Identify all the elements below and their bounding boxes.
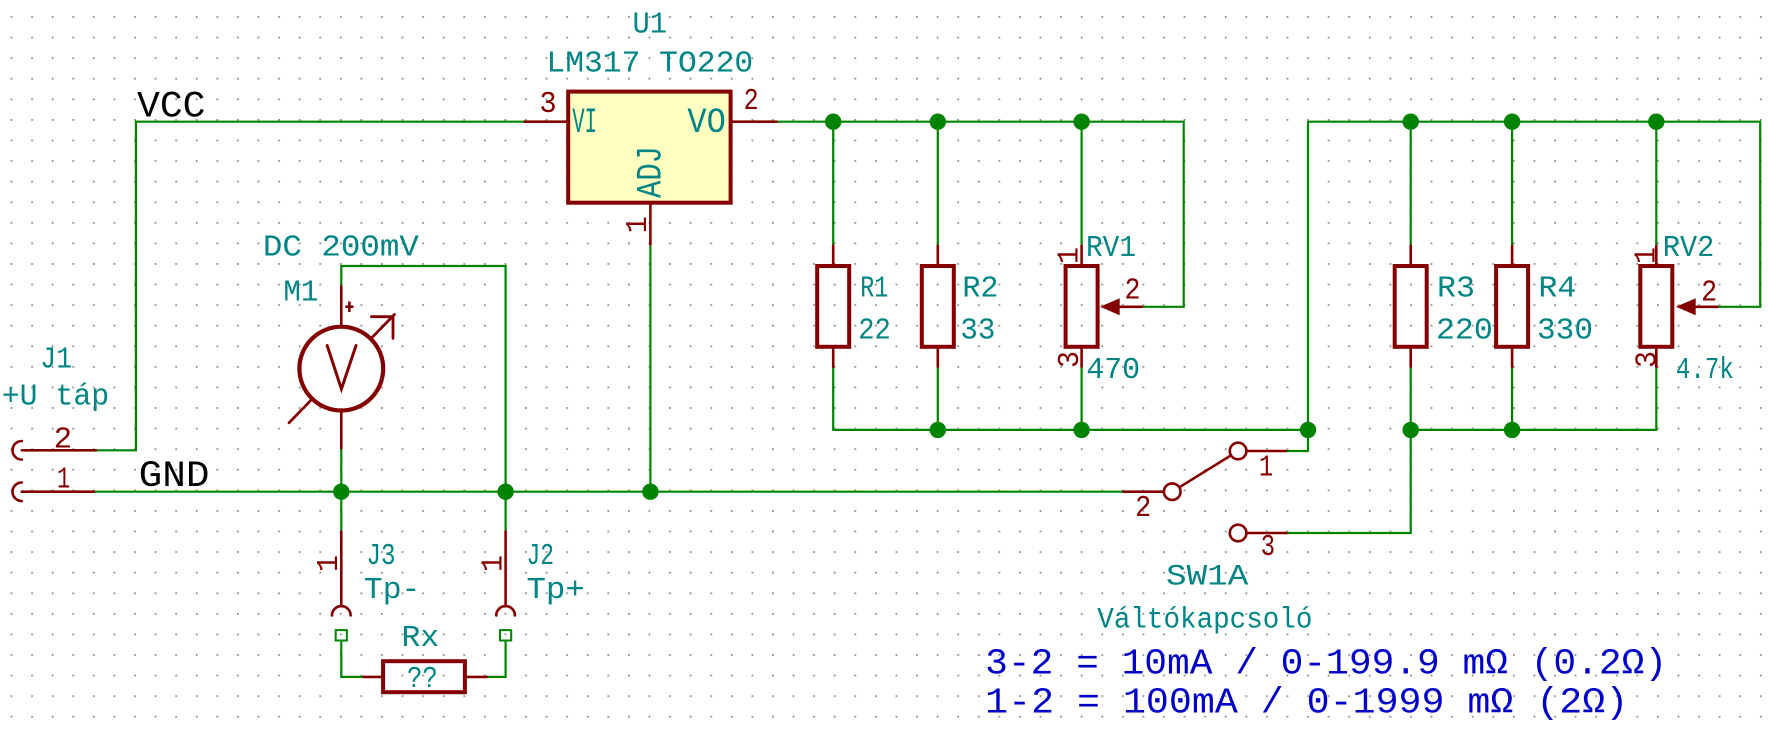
resistor Rx body [383,661,465,692]
potentiometer RV1 body [1066,266,1098,347]
Rx left pin [363,676,381,679]
svg-text:+U táp: +U táp [2,379,109,414]
switch SW1A bar [1179,455,1231,487]
voltmeter M1 body [299,327,383,411]
wire R3 bottom lead [1410,367,1412,430]
R2 top stub [936,246,939,264]
svg-text:22: 22 [858,314,891,349]
potentiometer RV2 body [1640,266,1672,347]
test point connector J2 pin [504,531,507,606]
svg-text:1: 1 [57,463,70,498]
junction Tp+/GND [497,484,513,500]
SW1A pin 3 stub [1246,532,1286,535]
svg-text:R4: R4 [1538,272,1576,307]
RV2 wiper arrow [1676,298,1696,315]
wire R1 bottom lead [832,367,834,430]
wire VO rail [776,121,1183,123]
test point connector J3 pin [340,531,343,606]
junction R2 bottom [930,422,946,438]
SW1A pin 2 stub [1124,490,1164,493]
R3 bottom stub [1409,349,1412,367]
junction RV2 top [1648,114,1664,130]
svg-text:33: 33 [960,314,995,349]
svg-text:4.7k: 4.7k [1676,353,1734,388]
connector J1 pin 1 [22,490,94,493]
junction M1/GND [333,484,349,500]
wire R1 top lead [832,122,834,246]
svg-text:RV2: RV2 [1663,231,1715,266]
svg-text:1: 1 [1630,247,1665,264]
wire right bank bottom rail [1411,429,1657,431]
wire RV1 top lead [1080,122,1082,246]
R1 bottom stub [832,349,835,367]
RV1 pin 1 stub [1080,246,1083,264]
M1 top pin [340,286,343,324]
wire GND to J3 [340,492,342,532]
svg-text:U1: U1 [633,8,668,43]
R4 top stub [1511,246,1514,264]
svg-text:Tp+: Tp+ [527,573,585,608]
svg-text:GND: GND [139,456,210,498]
wire R4 top lead [1511,122,1513,246]
pin 2 VO of U1 [733,120,777,123]
wire right bank top rail [1308,121,1760,123]
svg-text:2: 2 [1701,275,1717,310]
wire RV2 top lead [1655,122,1657,246]
wire ADJ to GND [649,244,651,491]
wire R2 bottom lead [937,367,939,430]
svg-text:R1: R1 [860,272,888,307]
resistor R1 [817,266,849,347]
RV2 pin 1 stub [1655,246,1658,264]
wire top rail corner to RV2 wiper [1718,122,1761,307]
wire GND horizontal [94,491,1124,493]
svg-text:1: 1 [476,555,511,572]
junction riser/rail [1300,422,1316,438]
wire Rx right wire [487,641,506,677]
svg-text:Rx: Rx [402,621,440,656]
svg-text:470: 470 [1086,353,1140,388]
M1 bottom pin [340,412,343,448]
svg-text:??: ?? [407,662,438,697]
svg-text:RV1: RV1 [1086,231,1136,266]
svg-text:M1: M1 [283,275,318,310]
resistor R2 [922,266,954,347]
svg-text:VO: VO [687,103,725,143]
svg-text:VCC: VCC [137,87,206,129]
svg-text:3-2 = 10mA / 0-199.9 mΩ (0.2Ω): 3-2 = 10mA / 0-199.9 mΩ (0.2Ω) [985,643,1667,684]
junction R4 top [1504,114,1520,130]
svg-text:3: 3 [539,87,556,122]
svg-text:ADJ: ADJ [631,146,671,198]
svg-text:3: 3 [1261,530,1275,565]
svg-text:1: 1 [621,216,656,233]
svg-text:3: 3 [1053,351,1088,368]
svg-text:VI: VI [572,103,597,143]
wire riser to right bank top rail [1307,122,1309,430]
switch SW1A pin 2 contact [1164,483,1181,500]
wire VCC horizontal [136,121,525,123]
svg-text:J1: J1 [40,343,72,378]
svg-text:DC 200mV: DC 200mV [263,230,419,265]
wire R3 top lead [1410,122,1412,246]
R2 bottom stub [936,349,939,367]
svg-text:Váltókapcsoló: Váltókapcsoló [1097,604,1312,638]
resistor R3 [1395,266,1427,347]
svg-text:2: 2 [744,84,759,119]
RV2 pin 3 stub [1655,349,1658,367]
svg-text:SW1A: SW1A [1166,561,1248,595]
Rx right pin [467,676,487,679]
svg-text:3: 3 [1630,351,1665,368]
pin 1 ADJ of U1 [649,205,652,245]
pin 3 VI of U1 [525,120,567,123]
R1 top stub [832,246,835,264]
svg-text:330: 330 [1537,314,1593,349]
wire SW1A pin 3 connection [1287,430,1411,533]
wire left bank bottom rail [833,429,1308,431]
wire R2 top lead [937,122,939,246]
wire Rx left wire [341,641,363,677]
svg-text:R2: R2 [962,272,998,307]
R3 top stub [1409,246,1412,264]
junction R4 bottom [1504,422,1520,438]
wire R4 bottom lead [1511,367,1513,430]
M1 V symbol [327,346,356,389]
junction R2 top [930,114,946,130]
wire SW1A pin 1 connection [1286,430,1308,451]
junction ADJ/GND [642,484,658,500]
svg-text:R3: R3 [1437,272,1475,307]
svg-text:Tp-: Tp- [364,573,421,608]
RV1 wiper arrow [1100,298,1120,315]
RV1 pin 3 stub [1080,349,1083,367]
M1 plus sign [345,302,353,313]
M1 adjustment arrow [289,315,394,423]
svg-text:1: 1 [312,555,347,572]
op-amp U1 LM317 body [568,92,730,203]
svg-text:1: 1 [1259,451,1273,486]
wire GND to J2 [505,492,507,532]
wire RV1 bottom lead [1080,367,1082,430]
wire M1 bottom to GND [340,448,342,492]
junction RV1 bottom [1073,422,1089,438]
svg-text:2: 2 [54,422,73,457]
svg-text:2: 2 [1125,274,1141,309]
svg-text:2: 2 [1135,491,1151,526]
wire VCC vertical to J1 pin 2 [96,122,136,451]
junction RV1 top [1073,114,1089,130]
R4 bottom stub [1511,349,1514,367]
svg-text:LM317 TO220: LM317 TO220 [546,47,753,82]
switch SW1A pin 3 contact [1230,525,1247,542]
wire VO rail corner to RV1 wiper [1142,122,1184,307]
resistor R4 [1496,266,1528,347]
svg-text:1: 1 [1052,247,1087,264]
SW1A pin 1 stub [1246,450,1285,453]
junction R1 top [825,114,841,130]
J3 unconnected wire end square [336,630,347,640]
svg-text:J3: J3 [367,539,396,574]
wire M1 top to Tp+ column [341,266,505,492]
svg-text:220: 220 [1436,314,1493,349]
svg-text:1-2 = 100mA / 0-1999 mΩ (2Ω): 1-2 = 100mA / 0-1999 mΩ (2Ω) [985,682,1628,723]
junction R3 top [1403,114,1419,130]
connector J1 pin 2 [22,449,96,452]
junction R3 bottom [1403,422,1419,438]
switch SW1A pin 1 contact [1230,443,1247,460]
J2 unconnected wire end square [500,630,511,640]
svg-text:J2: J2 [527,539,555,574]
wire RV2 bottom lead [1655,367,1657,430]
